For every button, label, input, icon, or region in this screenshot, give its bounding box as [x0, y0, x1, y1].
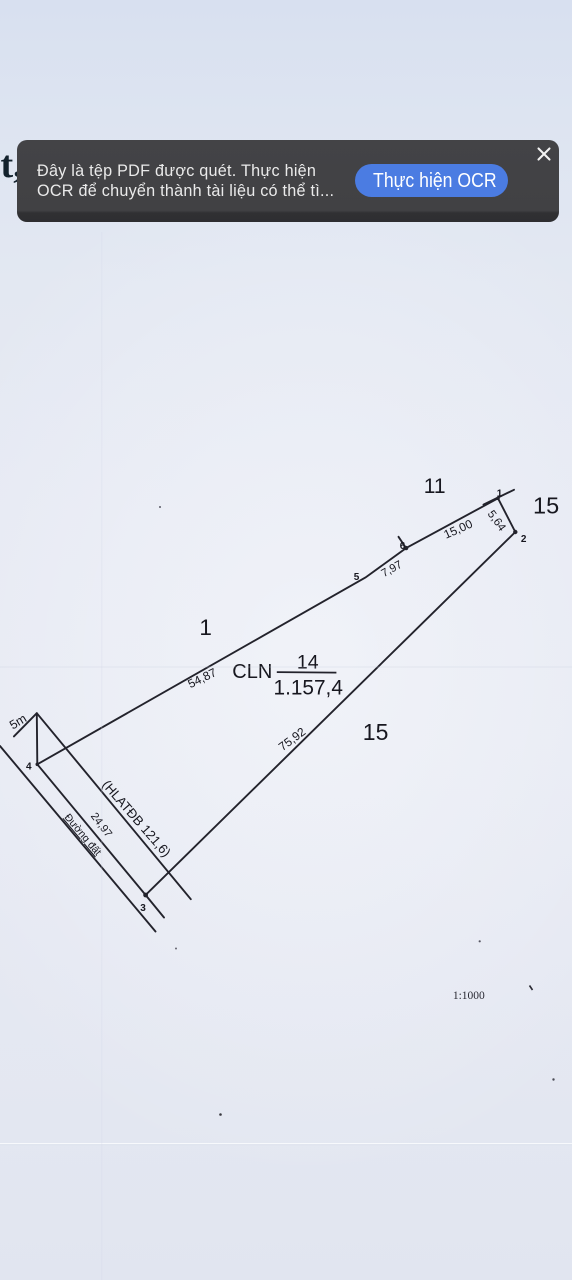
svg-text:3: 3	[140, 903, 146, 914]
svg-text:1: 1	[199, 615, 212, 640]
svg-text:54,87: 54,87	[186, 665, 219, 691]
svg-text:7,97: 7,97	[379, 559, 404, 580]
svg-text:(HLATĐB 121,6): (HLATĐB 121,6)	[99, 777, 174, 860]
svg-text:15: 15	[533, 493, 559, 519]
svg-text:1.157,4: 1.157,4	[274, 676, 343, 699]
svg-text:CLN: CLN	[232, 661, 272, 683]
svg-text:1: 1	[497, 489, 503, 500]
svg-text:5: 5	[354, 572, 360, 583]
svg-text:14: 14	[297, 651, 319, 673]
svg-text:11: 11	[424, 475, 446, 498]
svg-text:75,92: 75,92	[276, 724, 309, 753]
svg-text:2: 2	[521, 534, 527, 545]
svg-text:6: 6	[400, 541, 406, 552]
svg-text:5m: 5m	[7, 711, 29, 732]
svg-text:4: 4	[26, 762, 32, 773]
svg-text:15: 15	[363, 719, 389, 745]
svg-text:1:1000: 1:1000	[453, 990, 485, 1002]
